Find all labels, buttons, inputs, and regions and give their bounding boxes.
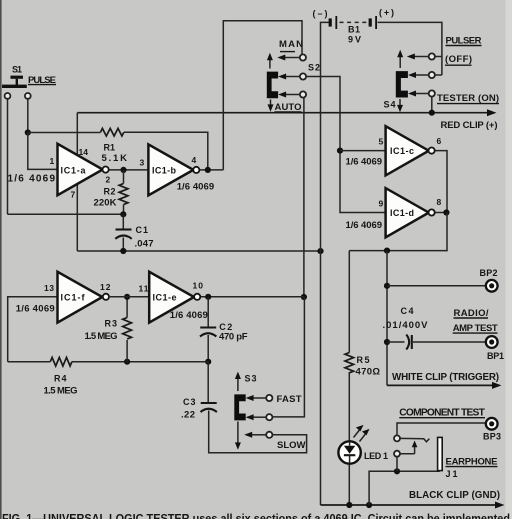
svg-text:6: 6 bbox=[437, 136, 442, 146]
svg-text:WHITE CLIP (TRIGGER): WHITE CLIP (TRIGGER) bbox=[392, 372, 499, 383]
label SLOW bbox=[277, 440, 306, 451]
wire C1 top link bbox=[122, 214, 124, 229]
wire IC1-c output over and down bbox=[435, 151, 448, 213]
svg-text:14: 14 bbox=[79, 147, 89, 157]
label PULSER bbox=[446, 36, 482, 47]
wire node A to R1 left bbox=[28, 132, 101, 134]
node A junction S1/R1/IC1-a input bbox=[25, 129, 31, 135]
svg-text:BLACK CLIP (GND): BLACK CLIP (GND) bbox=[409, 490, 500, 501]
svg-text:.22: .22 bbox=[181, 410, 195, 421]
label AMP TEST bbox=[453, 323, 498, 334]
svg-text:1.5 MEG: 1.5 MEG bbox=[44, 386, 78, 397]
node BP2 branch bbox=[384, 283, 390, 289]
svg-text:R4: R4 bbox=[54, 374, 67, 384]
pin 6 bbox=[437, 136, 442, 146]
wire C1 bottom link bbox=[122, 238, 124, 252]
wire outputs down and left to R5 branch bbox=[349, 213, 447, 251]
wire S2 pole right and down to IC1-c/IC1-d inputs bbox=[306, 77, 385, 213]
wire battery minus down the page to ground rail bbox=[321, 22, 330, 505]
wire BP2 lead bbox=[387, 285, 486, 287]
jack upper contact bbox=[394, 435, 429, 441]
node C2 top / IC1-e output bbox=[205, 294, 211, 300]
wire S1 right terminal down to node A bbox=[27, 99, 29, 133]
label BLACK CLIP (GND) bbox=[409, 490, 500, 501]
S2 AUTO contact bbox=[278, 91, 306, 97]
node battery minus / negative line bbox=[317, 248, 323, 254]
label R5 bbox=[357, 355, 370, 365]
S4 down arrow bbox=[397, 99, 403, 112]
op-amp inverter IC1-e bbox=[149, 272, 200, 323]
resistor R2 bbox=[119, 184, 128, 205]
label S4 bbox=[384, 100, 396, 110]
wire horizontal S1-left to R2/C1 node bbox=[8, 213, 124, 215]
wire IC1-a pin 7 down to negative rail bbox=[76, 184, 78, 252]
wire IC1-f output to IC1-e input bbox=[110, 296, 149, 298]
label 1/6 4069 IC1-c bbox=[346, 157, 383, 168]
S3 down arrow bbox=[235, 422, 241, 450]
label C3 bbox=[183, 397, 196, 407]
pin 2 bbox=[106, 175, 111, 185]
pin 4 bbox=[192, 155, 197, 165]
svg-text:IC1-f: IC1-f bbox=[61, 292, 86, 302]
wire BP riser down to WHITE CLIP line bbox=[386, 251, 388, 386]
label .22 bbox=[181, 410, 195, 421]
svg-text:IC1-b: IC1-b bbox=[152, 165, 177, 175]
node C1 bottom on negative line bbox=[120, 248, 126, 254]
wire S2 AUTO contact down to IC1-e output node bbox=[303, 98, 305, 297]
node LED on ground rail bbox=[346, 502, 352, 508]
label R2 bbox=[104, 187, 116, 197]
wire timing line R4/R3/C2 bbox=[8, 361, 209, 363]
node earphone branch on ground rail bbox=[366, 502, 372, 508]
S2 down arrow bbox=[268, 100, 274, 112]
capacitor C4 bbox=[406, 335, 412, 350]
wire jack upper contact to BP3 bbox=[397, 423, 486, 435]
wire R5 top link bbox=[348, 251, 350, 353]
label 1/6 4069 IC1-d bbox=[346, 220, 383, 231]
wire negative line pin7/C1 to battery minus vertical bbox=[77, 250, 320, 252]
S2 up arrow bbox=[267, 53, 273, 69]
wire IC1-e output to AUTO riser bbox=[200, 296, 304, 298]
wire AUTO riser down to S3 pole bbox=[272, 297, 304, 417]
wire C2 bottom link bbox=[207, 335, 209, 362]
wire IC1-d output link bbox=[435, 212, 448, 214]
wire battery plus over and down to S4 pole bbox=[378, 22, 442, 75]
node C2 bottom / C3 top bbox=[205, 359, 211, 365]
binding post BP3 bbox=[486, 418, 498, 430]
wire ground rail BLACK CLIP bbox=[321, 502, 505, 509]
S4 pole contact bbox=[408, 72, 435, 78]
label R1 bbox=[104, 143, 116, 153]
svg-text:470 pF: 470 pF bbox=[219, 332, 248, 343]
op-amp inverter IC1-d bbox=[386, 188, 435, 237]
binding post BP1 bbox=[486, 336, 498, 348]
svg-text:TESTER (ON): TESTER (ON) bbox=[437, 93, 499, 104]
label R4 bbox=[54, 374, 67, 384]
label S2 bbox=[308, 63, 320, 73]
pin 13 bbox=[44, 283, 54, 293]
resistor R1 bbox=[101, 128, 124, 136]
wire earphone ground branch bbox=[369, 471, 440, 505]
svg-text:RED CLIP (+): RED CLIP (+) bbox=[441, 120, 498, 131]
svg-text:10: 10 bbox=[193, 281, 204, 291]
battery B1 bbox=[329, 16, 377, 29]
label R3 bbox=[105, 319, 118, 329]
S3 up arrow bbox=[235, 372, 241, 391]
svg-text:MAN: MAN bbox=[279, 39, 303, 50]
label (-) bbox=[313, 9, 328, 19]
label 9V bbox=[348, 35, 361, 45]
pushbutton S1 bbox=[2, 76, 31, 99]
label MAN bbox=[279, 39, 303, 52]
label AUTO bbox=[275, 102, 302, 113]
svg-text:1/6 4069: 1/6 4069 bbox=[346, 157, 383, 168]
svg-text:LED 1: LED 1 bbox=[364, 451, 388, 461]
svg-text:S2: S2 bbox=[308, 63, 320, 73]
label S1 bbox=[12, 65, 22, 75]
wire R1 right to corner down to IC1-b output node bbox=[124, 132, 208, 170]
svg-text:470Ω: 470Ω bbox=[356, 367, 381, 378]
pin 8 bbox=[437, 197, 442, 207]
svg-text:.01/400V: .01/400V bbox=[383, 320, 429, 331]
wire C2 top link bbox=[207, 297, 209, 327]
label EARPHONE bbox=[446, 457, 498, 468]
binding post BP2 bbox=[486, 280, 498, 292]
label 220K bbox=[94, 198, 117, 209]
label (OFF) bbox=[445, 54, 472, 65]
svg-text:C2: C2 bbox=[219, 322, 232, 332]
wire C4 left lead bbox=[387, 341, 405, 343]
svg-text:(+): (+) bbox=[379, 8, 394, 18]
svg-text:R2: R2 bbox=[104, 187, 116, 197]
label C4 bbox=[401, 306, 414, 316]
LED 1 bbox=[338, 441, 360, 463]
node IC1-b output bbox=[205, 167, 211, 173]
label 1/6 4069 IC1-f bbox=[16, 304, 55, 315]
wire MAN loop up and over to S2 MAN contact bbox=[223, 21, 302, 170]
label WHITE CLIP (TRIGGER) bbox=[392, 372, 499, 383]
wire V+ rail RED CLIP (+) bbox=[77, 109, 496, 116]
resistor R4 bbox=[50, 357, 72, 366]
caption bbox=[2, 511, 510, 519]
pin 5 bbox=[379, 137, 384, 147]
svg-text:FAST: FAST bbox=[277, 394, 302, 405]
pin 14 bbox=[79, 147, 89, 157]
label 470 ohms bbox=[356, 367, 381, 378]
pin 11 bbox=[139, 284, 149, 294]
svg-text:COMPONENT TEST: COMPONENT TEST bbox=[399, 407, 485, 418]
wire S1 left terminal down to lower rail bbox=[7, 99, 9, 215]
node IC1-c pin 5 branch bbox=[337, 148, 343, 154]
wire R2 bottom link bbox=[123, 205, 125, 215]
label .047 bbox=[135, 239, 154, 250]
svg-text:S4: S4 bbox=[384, 100, 396, 110]
svg-text:SLOW: SLOW bbox=[277, 440, 306, 451]
label LED 1 bbox=[364, 451, 388, 461]
pin 1 bbox=[50, 156, 55, 166]
node jack lower contact bbox=[394, 468, 400, 474]
pin 7 bbox=[71, 190, 76, 200]
node BP riser on output line bbox=[384, 248, 390, 254]
svg-text:R3: R3 bbox=[105, 319, 118, 329]
wire C3 top link bbox=[207, 362, 209, 402]
earphone jack J1 plug bar bbox=[438, 437, 443, 470]
svg-text:9: 9 bbox=[379, 199, 384, 209]
wire LED bottom to ground rail bbox=[348, 463, 350, 505]
node R2 top bbox=[120, 167, 126, 173]
wire WHITE CLIP (TRIGGER) lead bbox=[387, 382, 502, 389]
pin 9 bbox=[379, 199, 384, 209]
jack lower contact with arrow bbox=[394, 441, 417, 457]
svg-text:1/6 4069: 1/6 4069 bbox=[346, 220, 383, 231]
label C1 bbox=[136, 225, 149, 235]
label BP3 bbox=[483, 432, 501, 442]
svg-text:2: 2 bbox=[106, 175, 111, 185]
capacitor C1 bbox=[115, 230, 131, 239]
S4 OFF contact bbox=[407, 53, 435, 59]
label .01/400V bbox=[383, 320, 429, 331]
S2 pole contact bbox=[278, 73, 306, 79]
LED emission arrows bbox=[354, 425, 370, 442]
pin 12 bbox=[100, 282, 111, 292]
label S3 bbox=[245, 374, 257, 384]
label PULSE bbox=[28, 75, 56, 86]
wire R2 top link bbox=[123, 170, 125, 184]
svg-text:1/6 4069: 1/6 4069 bbox=[170, 310, 208, 321]
svg-text:IC1-a: IC1-a bbox=[61, 165, 87, 175]
node R2 bottom / C1 top bbox=[120, 211, 126, 217]
wire R3 bottom link bbox=[126, 340, 128, 362]
node C4 branch bbox=[384, 339, 390, 345]
svg-text:7: 7 bbox=[71, 190, 76, 200]
svg-text:(OFF): (OFF) bbox=[445, 54, 472, 65]
svg-text:AMP TEST: AMP TEST bbox=[453, 323, 498, 334]
S3 FAST contact bbox=[246, 395, 273, 401]
svg-text:BP1: BP1 bbox=[487, 351, 504, 361]
label BP2 bbox=[480, 268, 498, 278]
capacitor C3 bbox=[201, 403, 217, 412]
svg-text:.047: .047 bbox=[135, 239, 154, 250]
svg-text:5: 5 bbox=[379, 137, 384, 147]
svg-text:J1: J1 bbox=[446, 469, 458, 479]
svg-text:4: 4 bbox=[192, 155, 197, 165]
svg-text:1: 1 bbox=[50, 156, 55, 166]
svg-text:1/6 4069: 1/6 4069 bbox=[16, 304, 55, 315]
svg-text:1.5 MEG: 1.5 MEG bbox=[85, 331, 118, 342]
svg-text:C1: C1 bbox=[136, 225, 149, 235]
svg-text:220K: 220K bbox=[94, 198, 117, 209]
S3 pole contact bbox=[246, 414, 273, 420]
S2 MAN contact bbox=[277, 54, 306, 60]
wire IC1-f pin 13 and left riser bbox=[8, 297, 58, 362]
node paralleled outputs bbox=[443, 209, 449, 215]
svg-text:IC1-e: IC1-e bbox=[153, 292, 177, 302]
wire IC1-a output to IC1-b input bbox=[106, 169, 149, 171]
svg-text:B1: B1 bbox=[348, 25, 360, 35]
op-amp inverter IC1-f bbox=[58, 272, 110, 323]
capacitor C2 bbox=[200, 328, 216, 337]
label RADIO/ bbox=[454, 308, 489, 319]
label (+) bbox=[379, 8, 394, 18]
label 1/6 4069 IC1-e bbox=[170, 310, 208, 321]
node R3 bottom bbox=[124, 359, 130, 365]
label FAST bbox=[277, 394, 302, 405]
label 1.5 MEG R4 bbox=[44, 386, 78, 397]
svg-text:9V: 9V bbox=[348, 35, 361, 45]
wire jack lower contact riser bbox=[396, 457, 398, 472]
label BP1 bbox=[487, 351, 504, 361]
svg-text:R1: R1 bbox=[104, 143, 116, 153]
node AUTO / IC1-e output bbox=[301, 294, 307, 300]
wire S4 OFF contact loop bbox=[435, 56, 442, 58]
svg-text:3: 3 bbox=[140, 158, 145, 168]
resistor R5 bbox=[345, 353, 354, 373]
wire node A down and right to IC1-a pin 1 bbox=[28, 133, 58, 170]
wire IC1-a pin 14 up to V+ rail bbox=[76, 113, 78, 156]
pin 10 bbox=[193, 281, 204, 291]
op-amp inverter IC1-c bbox=[386, 126, 435, 175]
svg-text:FIG. 1—UNIVERSAL LOGIC TESTER: FIG. 1—UNIVERSAL LOGIC TESTER uses all s… bbox=[2, 511, 510, 519]
svg-text:1/6 4069: 1/6 4069 bbox=[177, 182, 215, 193]
switch S4 body bbox=[396, 71, 408, 97]
S4 up arrow bbox=[397, 50, 403, 68]
svg-text:BP2: BP2 bbox=[480, 268, 498, 278]
svg-text:S3: S3 bbox=[245, 374, 257, 384]
wire C3 bottom to SLOW contact bbox=[209, 411, 307, 453]
label TESTER (ON) bbox=[437, 93, 499, 104]
wire C4 right lead to BP1 bbox=[413, 341, 486, 343]
svg-text:S1: S1 bbox=[12, 65, 22, 75]
svg-text:IC1-d: IC1-d bbox=[390, 208, 414, 218]
svg-text:11: 11 bbox=[139, 284, 149, 294]
node IC1-f output / R3 bbox=[124, 294, 130, 300]
label 1/6 4069 IC1-a bbox=[8, 174, 56, 185]
svg-text:EARPHONE: EARPHONE bbox=[446, 457, 498, 468]
S4 TESTER contact bbox=[408, 90, 435, 96]
svg-text:5.1K: 5.1K bbox=[102, 153, 128, 164]
svg-text:IC1-c: IC1-c bbox=[390, 146, 414, 156]
op-amp inverter IC1-a bbox=[58, 144, 109, 195]
switch S2 body bbox=[267, 72, 278, 99]
wire IC1-b output to MAN loop riser bbox=[197, 169, 223, 171]
wire R5 bottom to LED top bbox=[348, 372, 350, 442]
switch S3 body bbox=[234, 394, 245, 420]
label 1.5 MEG R3 bbox=[85, 331, 118, 342]
svg-text:12: 12 bbox=[100, 282, 111, 292]
wire S4 TESTER contact down to V+ rail bbox=[431, 97, 433, 113]
S3 SLOW contact bbox=[244, 432, 272, 438]
label RED CLIP (+) bbox=[441, 120, 498, 131]
label J1 bbox=[446, 469, 458, 479]
pin 3 bbox=[140, 158, 145, 168]
label 470 pF bbox=[219, 332, 248, 343]
op-amp inverter IC1-b bbox=[148, 144, 199, 195]
svg-text:(–): (–) bbox=[313, 9, 328, 19]
wire R3 top link bbox=[126, 297, 128, 318]
svg-text:BP3: BP3 bbox=[483, 432, 501, 442]
label 1/6 4069 IC1-b bbox=[177, 182, 215, 193]
wire IC1-c pin 5 bbox=[340, 150, 386, 152]
node TESTER on V+ rail bbox=[429, 110, 435, 116]
label COMPONENT TEST bbox=[399, 407, 485, 418]
label B1 bbox=[348, 25, 360, 35]
label C2 bbox=[219, 322, 232, 332]
resistor R3 bbox=[123, 318, 132, 340]
label 5.1K bbox=[102, 153, 128, 164]
wire S4 pole link bbox=[435, 74, 442, 76]
svg-text:C3: C3 bbox=[183, 397, 196, 407]
svg-text:8: 8 bbox=[437, 197, 442, 207]
svg-text:13: 13 bbox=[44, 283, 54, 293]
